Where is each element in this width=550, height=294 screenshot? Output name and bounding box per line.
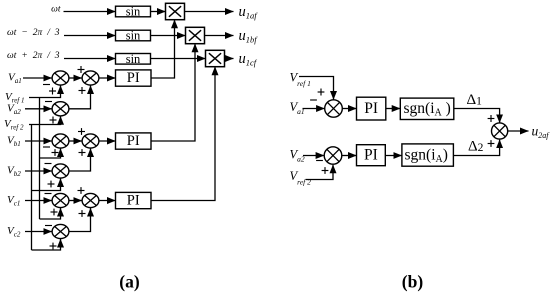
block PI2 (116, 133, 152, 149)
wire Vc1 to summing junction S7 (25, 200, 52, 202)
wire Va1 to S10 (303, 108, 325, 110)
svg-text:u1cf: u1cf (239, 51, 258, 68)
svg-text:Vref 2: Vref 2 (290, 169, 312, 187)
svg-text:u1af: u1af (239, 4, 259, 21)
wire PI5 to sgn2 (385, 155, 402, 157)
wire Vref2 tap to S9 (32, 239, 61, 250)
wire S3 to S2 (69, 85, 90, 108)
summing junction S3 (52, 102, 69, 116)
sign minus at S7 (45, 193, 52, 195)
wire S5 to PI2 (99, 140, 115, 142)
sign plus below S8 (79, 210, 86, 217)
wire wt+2pi/3 to sin3 (64, 58, 116, 60)
sign plus below S9 (50, 243, 57, 250)
svg-text:u1bf: u1bf (239, 28, 259, 45)
sign minus at S11 (316, 160, 323, 162)
svg-text:Vc1: Vc1 (7, 194, 20, 208)
wire sgn2 to S12 with delta2 (453, 140, 499, 156)
summing junction S10 (325, 100, 343, 117)
svg-text:PI: PI (364, 147, 378, 164)
wire PI2 to M2 (151, 44, 195, 141)
wire S9 to S8 (69, 208, 90, 232)
wire sin2 to multiplier M2 (151, 35, 186, 37)
multiplier M2 (186, 27, 205, 43)
wire PI1 to M1 (151, 20, 175, 78)
wire S4 to S5 (69, 140, 82, 142)
sign plus at S12 top (488, 115, 495, 122)
sign plus at S10 top (318, 89, 325, 96)
summing junction S9 (52, 224, 69, 238)
wire S7 to S8 (69, 200, 82, 202)
multiplier M1 (166, 3, 185, 19)
svg-text:Vref 2: Vref 2 (4, 118, 24, 132)
wire S8 to PI3 (99, 200, 115, 202)
sign plus below S3 (50, 117, 57, 124)
wire Va1 to summing junction S1 (23, 77, 52, 79)
block PI4 (357, 97, 386, 120)
wire Vref1 into S1 (29, 85, 61, 97)
svg-text:PI: PI (127, 70, 140, 86)
sign plus at S12 bottom (488, 140, 495, 147)
svg-text:Vb1: Vb1 (7, 135, 21, 149)
wire Vb2 to summing junction S6 (25, 170, 52, 172)
wire Vref2 into S11 (306, 165, 334, 180)
sign minus at S4 (43, 146, 50, 148)
sign plus above S5 (78, 128, 85, 135)
sign minus at S9 (45, 225, 52, 227)
wire Vref2 into S3 (29, 116, 61, 124)
block PI1 (116, 70, 152, 86)
wire S2 to PI1 (99, 77, 115, 79)
svg-text:u2af: u2af (532, 124, 550, 140)
block PI3 (116, 192, 152, 208)
sign minus at S10 (310, 99, 317, 101)
wire wt-2pi/3 to sin2 (64, 35, 116, 37)
wire sgn1 to S12 with delta1 (454, 109, 500, 123)
svg-text:(b): (b) (402, 272, 424, 292)
wire PI4 to sgn1 (386, 108, 401, 110)
wire S10 to PI4 (342, 108, 356, 110)
wire Vref2 branch vertical (31, 125, 33, 251)
wire Vref1 into S10 (299, 77, 334, 100)
summing junction S11 (324, 147, 342, 164)
block sgn1 (400, 98, 454, 119)
wire Vref2 tap to S6 (32, 178, 61, 190)
block sin3 (116, 52, 151, 66)
svg-text:Va1: Va1 (290, 100, 305, 116)
wire Vref1 tap to S4 (40, 148, 61, 158)
summing junction S8 (82, 193, 99, 207)
sign plus below S7 (51, 209, 58, 216)
summing junction S12 (492, 123, 508, 139)
svg-text:ωt + 2π / 3: ωt + 2π / 3 (7, 51, 60, 61)
summing junction S1 (52, 71, 69, 85)
svg-text:sin: sin (126, 52, 141, 66)
wire wt to sin1 (64, 11, 116, 13)
sign plus below S1 (49, 88, 56, 95)
wire M1 to u1af output (185, 11, 234, 13)
sign minus at S3 (45, 101, 52, 103)
wire M2 to u1bf output (205, 35, 234, 37)
multiplier M3 (206, 50, 225, 66)
sign minus at S1 (43, 84, 50, 86)
sign plus below S5 (79, 149, 86, 156)
wire Va2 to S11 (303, 155, 324, 157)
svg-text:PI: PI (127, 193, 140, 209)
sign plus above S8 (78, 187, 85, 194)
summing junction S6 (52, 164, 69, 178)
svg-text:ωt − 2π / 3: ωt − 2π / 3 (7, 28, 60, 38)
wire S1 to S2 (69, 77, 82, 79)
svg-text:Δ2: Δ2 (468, 139, 484, 155)
wire Vref1 tap to S7 (40, 208, 61, 219)
wire S6 to S5 (69, 148, 90, 171)
sign plus below S6 (48, 181, 55, 188)
sign plus above S2 (78, 66, 85, 73)
wire Vb1 to summing junction S4 (25, 140, 52, 142)
svg-text:Δ1: Δ1 (467, 92, 483, 108)
svg-text:Vb2: Vb2 (7, 165, 21, 179)
wire S11 to PI5 (342, 155, 357, 157)
svg-text:PI: PI (364, 100, 378, 117)
svg-text:PI: PI (127, 133, 140, 149)
block PI5 (357, 145, 386, 166)
svg-text:sgn(iA ): sgn(iA ) (404, 100, 451, 119)
summing junction S4 (52, 134, 69, 148)
wire Vref1 branch vertical (39, 98, 41, 220)
svg-text:Va2: Va2 (290, 148, 305, 164)
block sin2 (116, 29, 151, 43)
svg-text:Vref 1: Vref 1 (290, 71, 311, 89)
wire sin3 to multiplier M3 (151, 58, 206, 60)
block sin1 (116, 5, 151, 19)
summing junction S5 (82, 134, 99, 148)
svg-text:ωt: ωt (51, 5, 61, 15)
sign plus at S11 bottom (322, 167, 329, 174)
wire M3 to u1cf output (225, 58, 234, 60)
svg-text:(a): (a) (119, 272, 140, 292)
wire Vc2 to summing junction S9 (25, 231, 52, 233)
svg-text:sin: sin (126, 5, 141, 19)
svg-text:Va1: Va1 (8, 72, 22, 86)
block sgn2 (402, 144, 454, 166)
summing junction S7 (52, 193, 69, 207)
wire PI3 to M3 (151, 67, 215, 201)
wire S12 to u2af output (508, 130, 529, 132)
wire Va2 to summing junction S3 (25, 108, 52, 110)
sign minus at S6 (45, 163, 52, 165)
summing junction S2 (82, 71, 99, 85)
svg-text:Vc2: Vc2 (7, 225, 21, 239)
sign plus below S4 (52, 149, 59, 156)
svg-text:sin: sin (126, 29, 141, 43)
sign plus below S2 (79, 87, 86, 94)
wire sin1 to multiplier M1 (151, 11, 166, 13)
